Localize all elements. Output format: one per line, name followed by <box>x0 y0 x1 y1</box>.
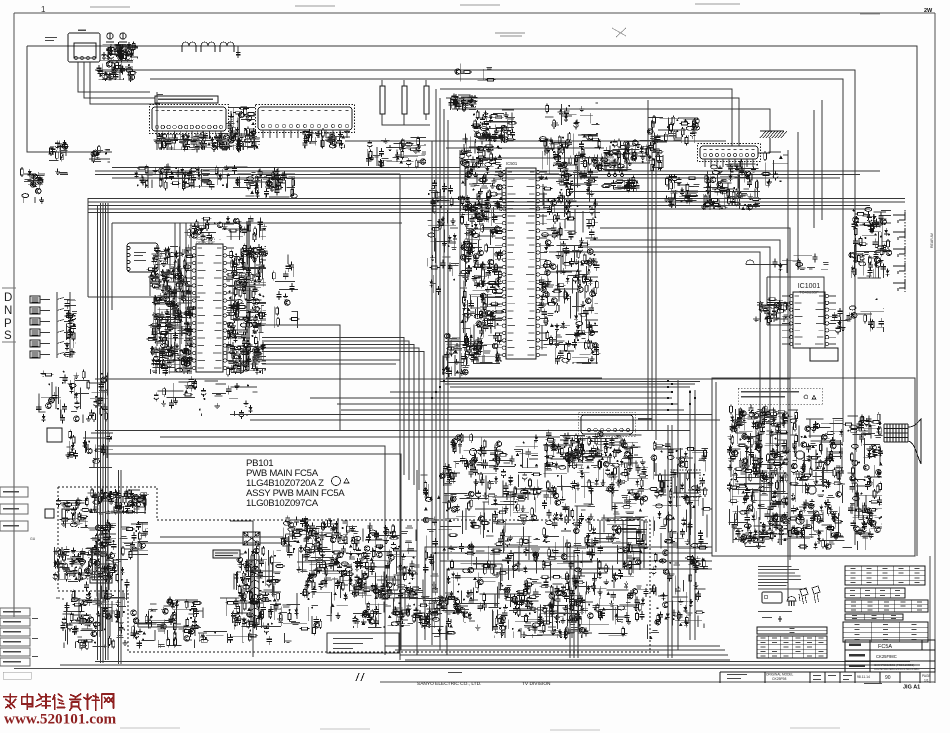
bottom section outer boxes <box>97 446 417 655</box>
watermark Chinese characters <box>4 694 114 710</box>
svg-text:1: 1 <box>41 5 46 14</box>
power section divider <box>230 521 253 657</box>
chopper transformer T801 <box>251 553 259 628</box>
center-right vertical bus x648 <box>648 100 656 440</box>
micro controller IC501 <box>495 168 547 359</box>
svg-text:2W: 2W <box>924 8 933 14</box>
svg-text:IC501: IC501 <box>506 161 518 166</box>
CRT bias parts <box>736 406 798 430</box>
left small parts A <box>48 140 68 174</box>
bottom left verticals <box>119 470 122 664</box>
svg-text:JIG A1: JIG A1 <box>903 685 920 691</box>
CRT drive parts green <box>789 419 845 541</box>
title block <box>845 640 935 672</box>
PCB name text PB101 <box>246 458 349 509</box>
IC201 left band parts <box>146 245 195 377</box>
long wire y379 <box>95 378 790 380</box>
rear AV jack J1 <box>893 210 934 292</box>
svg-text:TV DIVISION: TV DIVISION <box>522 681 551 687</box>
bus wire top loop 1 <box>27 46 917 556</box>
spark gap note <box>758 611 792 618</box>
resistor row below CN101 <box>154 130 260 152</box>
center vertical bus bundle <box>432 89 448 610</box>
handwritten check mark <box>356 673 364 681</box>
mid-left row parts <box>134 164 280 191</box>
CRT socket network <box>843 412 883 540</box>
parts above AV connector <box>647 115 699 145</box>
hex inverter IC1001 TC4069BP <box>782 292 836 348</box>
svg-text:PAGE: PAGE <box>922 674 931 678</box>
bus y430 <box>95 431 690 438</box>
parts below IC201 <box>154 376 258 419</box>
TP mark <box>448 672 462 673</box>
east-west parts <box>649 441 712 628</box>
inductor L103 <box>220 42 234 52</box>
wires IC301 <box>560 158 650 177</box>
svg-text:90: 90 <box>885 675 891 681</box>
audio parts <box>664 174 699 208</box>
left vertical bus bundle <box>101 203 109 663</box>
parts between connectors <box>227 107 256 141</box>
svg-text:CK25F98: CK25F98 <box>772 677 786 681</box>
bus wires y170 <box>95 171 880 178</box>
video out transistor Q901 <box>796 451 804 459</box>
relay RL801 <box>62 509 75 519</box>
notes text block <box>758 566 806 589</box>
antenna input label <box>45 37 57 41</box>
tuner stepped wires <box>78 62 160 150</box>
junction dots on deflection buses <box>431 380 696 411</box>
svg-text:CK25F98C: CK25F98C <box>876 654 897 659</box>
package drawing TO220 A <box>799 588 808 604</box>
H-out snubber parts <box>492 585 588 640</box>
svg-text:QXXACBSP: QXXACBSP <box>196 241 215 245</box>
rear AV coupling parts <box>849 207 892 278</box>
parts right of IC1001 <box>830 298 884 334</box>
AC outlet box <box>327 633 399 653</box>
svg-text:TC4069BP: TC4069BP <box>799 290 819 295</box>
T811 label plate <box>213 550 240 558</box>
transistor table C <box>845 600 928 612</box>
IC1001 sub block <box>810 348 838 361</box>
video out transistor Q903 <box>796 516 804 524</box>
left small parts B <box>21 167 45 203</box>
second bottom rule <box>380 556 935 683</box>
package drawing TO220 B <box>812 586 820 603</box>
package drawing DIP <box>762 592 782 603</box>
svg-text:1/1: 1/1 <box>924 679 929 683</box>
SAW filter SF201 <box>127 243 158 272</box>
trimmer capacitor VC1 <box>106 33 114 42</box>
approval signature boxes <box>0 487 36 541</box>
H-out bottom parts <box>422 602 498 640</box>
CRT bottom parts <box>734 521 867 550</box>
parts top right of IC501 <box>545 103 599 129</box>
horizontal drive parts <box>540 430 649 624</box>
svg-text:GU: GU <box>30 537 36 541</box>
AGC line parts <box>89 145 110 163</box>
bottom strip <box>720 672 935 683</box>
power secondary parts <box>120 521 148 559</box>
line filter capacitor C001 <box>380 86 385 114</box>
flyback secondary comb <box>671 470 700 497</box>
svg-text:D: D <box>4 292 12 304</box>
margin letters DNPS <box>4 292 12 342</box>
protector label <box>90 577 112 583</box>
tuner AGC components <box>101 41 138 62</box>
svg-text:REAR AV: REAR AV <box>930 232 934 248</box>
relay coil K801 <box>470 449 477 456</box>
reset parts <box>65 430 113 468</box>
replacement table F <box>757 627 827 634</box>
bus wire top loop 3 <box>150 79 843 442</box>
svg-text:S: S <box>4 330 12 342</box>
vertical drive parts mid <box>352 553 414 595</box>
faint pencil marks top <box>495 28 626 37</box>
inner deflection box <box>138 537 283 627</box>
bus bundle y200 <box>88 199 905 210</box>
transistor table A <box>845 566 925 585</box>
connector CN102 <box>256 105 355 139</box>
crystal X001 <box>47 428 62 442</box>
svg-text:98.11.14: 98.11.14 <box>857 675 870 679</box>
jungle IC201 QXXACBSP <box>185 244 234 372</box>
top mid sparse parts <box>455 64 496 82</box>
double vertical right of IC201 <box>247 221 249 370</box>
CRT neck funnel <box>908 419 921 464</box>
nested L buses to CRT section <box>425 547 712 655</box>
inductor L102 <box>201 42 215 52</box>
IC501 right band parts <box>538 132 600 364</box>
standby supply parts <box>60 592 127 650</box>
parts below AV connector <box>701 159 761 210</box>
parts right of CN102 <box>245 172 297 198</box>
bridge rectifier parts <box>53 546 93 581</box>
parts above IC201 <box>184 215 266 242</box>
parts below IC301 <box>601 176 639 193</box>
ground trees row <box>506 486 556 501</box>
deflection connector CN302 <box>579 413 653 437</box>
line filter capacitor C002 <box>402 86 407 114</box>
CRT socket pin grid <box>884 424 908 442</box>
bus wires into IF section <box>440 89 770 146</box>
resistor column right of IC201 <box>250 348 262 371</box>
svg-text:www.520101.com: www.520101.com <box>4 711 117 728</box>
wire corner x340 <box>253 325 340 430</box>
connector CN101 <box>150 105 229 140</box>
power bottom row parts <box>189 595 307 645</box>
left margin connector list <box>0 608 38 679</box>
CRT drive parts red <box>727 404 791 543</box>
parts cluster x440 y590 <box>430 596 469 623</box>
mid bus bundle y392-420 <box>230 392 720 420</box>
bus bundle y340 to center verticals <box>262 338 424 496</box>
error amp parts <box>231 544 285 628</box>
mid-left parts below keyboard <box>36 370 108 424</box>
IC1001 outer box <box>767 277 824 325</box>
package drawing TO92 <box>787 597 796 607</box>
regulator IC301 <box>605 154 627 177</box>
deflection parts A <box>281 515 348 554</box>
vertical out parts <box>421 460 542 611</box>
svg-text:SANYO ELECTRIC CO., LTD.: SANYO ELECTRIC CO., LTD. <box>417 681 481 687</box>
bus wire y191 <box>570 191 760 193</box>
line filter capacitor C003 <box>424 86 429 114</box>
wire y297 <box>88 198 200 297</box>
inductor L101 <box>182 42 196 52</box>
parts right of CN601 <box>761 151 788 187</box>
svg-text:CK25F58C/98C/255C/F56C/F88C: CK25F58C/98C/255C/F56C/F88C <box>874 667 920 671</box>
right nested bus loops <box>570 228 790 560</box>
svg-text:N: N <box>4 305 12 317</box>
CRT board outline <box>712 378 915 556</box>
parts left of IC501 bus <box>427 180 459 295</box>
tuner TU101 <box>68 30 100 63</box>
version table E <box>843 622 928 642</box>
degauss relay area <box>450 433 538 469</box>
right vertical bus bundle <box>788 70 855 600</box>
IC201 section box <box>112 174 402 660</box>
wire tuner feed <box>27 46 112 152</box>
transistor table D <box>845 614 903 620</box>
power mid fill parts <box>56 559 130 601</box>
bus bundle below IC501 <box>440 382 700 388</box>
chopper secondary parts <box>287 545 348 635</box>
power supply isolation dashed boundary <box>58 487 660 652</box>
chroma parts right of IC201 <box>272 255 299 329</box>
bus wire top loop 2 <box>95 70 855 545</box>
RF amp transistor Q101 area <box>96 60 137 82</box>
svg-text:P: P <box>4 318 12 330</box>
svg-text:1LG0B10Z097CA: 1LG0B10Z097CA <box>246 498 319 509</box>
deflection bottom row parts <box>542 594 659 639</box>
note box <box>155 94 218 103</box>
degauss posistor bridge D801 <box>243 532 260 545</box>
chopper drive parts <box>88 520 116 582</box>
mains entry parts <box>449 94 478 112</box>
keyboard resistor column <box>64 300 77 357</box>
parts below CN102 <box>301 128 350 149</box>
chassis ground hatch <box>758 131 787 153</box>
transistor table B <box>845 588 905 598</box>
svg-text:FC5A: FC5A <box>878 644 892 650</box>
power transformer primary parts <box>88 488 149 515</box>
IC501 left band parts <box>457 132 504 365</box>
verticals left of IC201 <box>175 223 191 372</box>
trimmer capacitor VC2 <box>119 33 127 42</box>
degauss thermistor parts <box>366 136 426 168</box>
wire IC1001 top <box>746 260 788 265</box>
parts below CN302 <box>544 436 638 470</box>
IC201 right band parts <box>224 244 268 377</box>
parts above IC1001 <box>772 254 828 274</box>
replacement table G <box>757 636 827 658</box>
parts top of IC501 <box>471 110 517 143</box>
parts left of IC1001 <box>753 298 790 325</box>
drive transformer T302 <box>623 517 644 570</box>
regulator parts <box>131 597 202 649</box>
capacitor C105 <box>237 46 239 58</box>
extra bus line y212 <box>88 205 600 660</box>
bottom bus bundle <box>60 646 920 665</box>
AV connector CN601 <box>698 144 761 168</box>
CRT note dashed box <box>738 388 822 404</box>
deflection parts B <box>300 521 421 600</box>
bottom center verticals <box>570 380 695 658</box>
key switch ladder S001-S006 <box>30 292 70 358</box>
sync parts below-left of IC501 <box>442 333 470 377</box>
IF box edges <box>112 141 726 378</box>
AC inlet <box>45 509 54 518</box>
deflection parts C <box>353 587 438 630</box>
wire caps feed <box>382 80 430 125</box>
video out transistor Q902 <box>808 486 816 494</box>
mains input filter parts <box>56 497 90 529</box>
video cluster mid top <box>596 139 664 173</box>
svg-text:ORIGINAL MODEL: ORIGINAL MODEL <box>766 673 794 677</box>
